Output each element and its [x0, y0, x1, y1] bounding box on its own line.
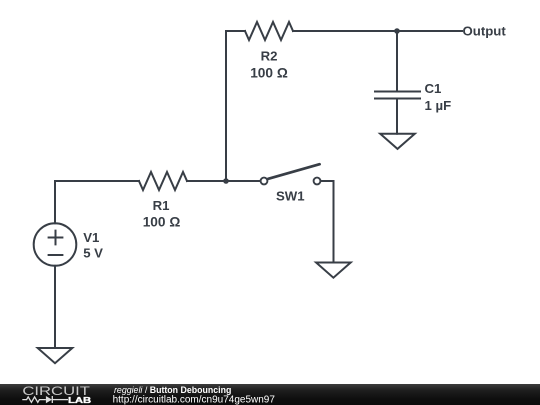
svg-text:http://circuitlab.com/cn9u74ge: http://circuitlab.com/cn9u74ge5wn97: [113, 394, 276, 405]
svg-text:5 V: 5 V: [83, 246, 103, 261]
node junction dot (R2/C1/Output): [394, 28, 400, 34]
logo diode triangle: [46, 396, 52, 403]
svg-text:R2: R2: [261, 49, 278, 64]
V1 plus sign: [49, 231, 63, 245]
wire top left lead to R2: [226, 30, 245, 32]
svg-text:100 Ω: 100 Ω: [250, 65, 288, 80]
svg-text:reggieli / Button Debouncing: reggieli / Button Debouncing: [114, 385, 231, 395]
wire capacitor to ground: [396, 99, 398, 134]
V1 minus sign: [49, 254, 63, 256]
switch SW1 terminal circles: [261, 178, 321, 185]
wire top-left vertical (node to R2): [225, 31, 227, 181]
wire R1 to switch: [187, 180, 260, 182]
svg-text:C1: C1: [425, 81, 442, 96]
resistor R2: [245, 22, 293, 40]
svg-text:LAB: LAB: [68, 396, 92, 405]
voltage source V1: [34, 223, 77, 266]
wire switch to corner: [321, 180, 334, 182]
capacitor C1: [375, 92, 420, 99]
resistor R1: [139, 172, 187, 190]
logo schematic glyph: [22, 396, 68, 403]
wire V1 to R1 (horizontal main): [55, 180, 139, 182]
svg-text:Output: Output: [463, 23, 507, 38]
wire R2 to Output: [293, 30, 462, 32]
node junction dot (R1/SW1): [223, 178, 229, 184]
svg-text:100 Ω: 100 Ω: [143, 215, 181, 230]
wire V1 bottom: [54, 266, 56, 348]
ground (C1): [380, 134, 415, 149]
svg-text:R1: R1: [153, 198, 170, 213]
wire capacitor branch upper: [396, 31, 398, 91]
wire V1 top: [54, 181, 56, 223]
svg-text:V1: V1: [83, 230, 99, 245]
ground (SW1): [316, 263, 351, 278]
switch SW1 lever: [268, 164, 319, 179]
wire switch ground vertical: [333, 181, 335, 263]
svg-text:SW1: SW1: [276, 189, 305, 204]
footer bar: [0, 384, 540, 405]
svg-text:1 µF: 1 µF: [425, 98, 452, 113]
ground (V1): [38, 348, 73, 363]
